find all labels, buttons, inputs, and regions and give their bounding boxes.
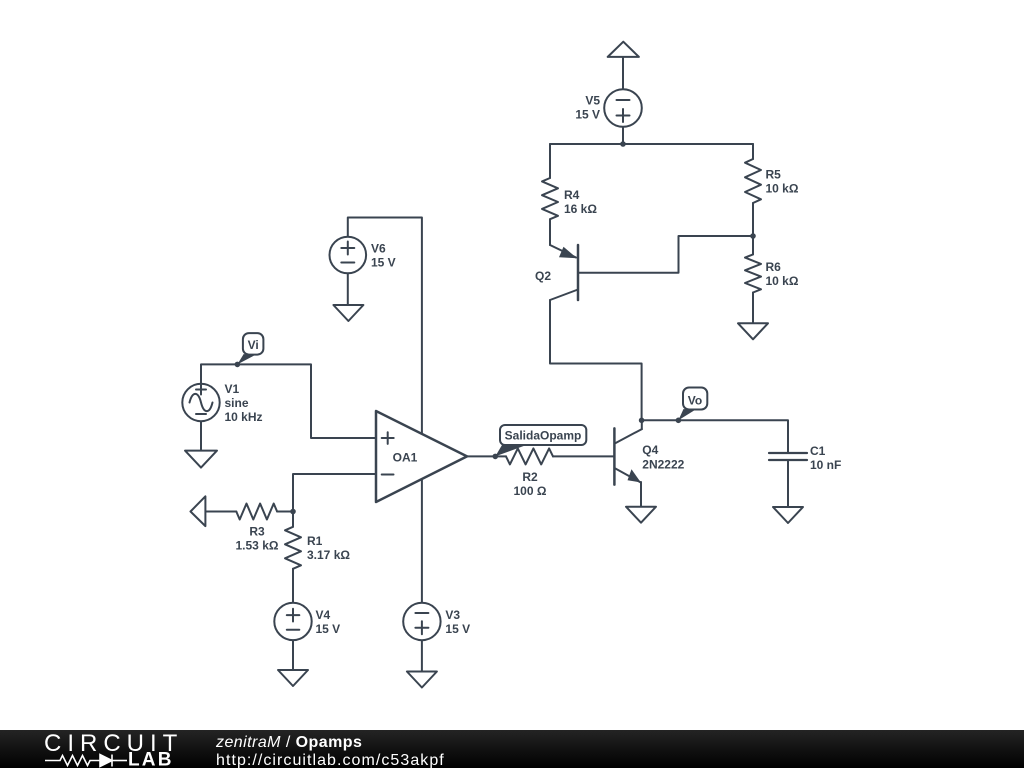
svg-text:2N2222: 2N2222 (642, 458, 684, 472)
node V5/rail junction (620, 141, 626, 147)
svg-text:R3: R3 (249, 525, 265, 539)
svg-text:V4: V4 (316, 608, 331, 622)
net flag SalidaOpamp (495, 425, 586, 456)
node SalidaOpamp junction (493, 454, 499, 460)
footer title text (216, 734, 445, 769)
ground (V6) (333, 305, 363, 321)
svg-text:R6: R6 (766, 260, 782, 274)
ground (R6) (738, 323, 768, 339)
svg-text:10 nF: 10 nF (810, 458, 841, 472)
wire op-amp V- pin to V3 (421, 479, 423, 603)
wire V5 top to power flag (622, 57, 624, 90)
svg-text:R1: R1 (307, 534, 323, 548)
wire op-amp output to R2 (467, 455, 506, 457)
wire V1 top to node Vi and op-amp + input (201, 364, 376, 438)
wire top rail V5 node (550, 143, 753, 145)
svg-text:16 kΩ: 16 kΩ (564, 202, 597, 216)
wire rail to R4 (549, 144, 551, 178)
svg-text:10 kΩ: 10 kΩ (766, 182, 799, 196)
wire Q2 base to node B (578, 236, 753, 273)
wire R2 to Q4 base (553, 455, 614, 457)
svg-text:Q2: Q2 (535, 269, 551, 283)
resistor R6 (745, 254, 761, 292)
svg-text:V3: V3 (445, 608, 460, 622)
wire V3 bottom to ground (421, 640, 423, 671)
voltage source V1 (sine) (182, 384, 219, 421)
resistor R5 (745, 159, 761, 203)
wire V4 bottom to ground (292, 640, 294, 670)
resistor R4 (542, 178, 558, 219)
svg-text:R5: R5 (766, 168, 782, 182)
wire V6 to op-amp V+ pin (348, 218, 422, 434)
resistor R1 (285, 527, 301, 569)
wire V5 bottom to rail (622, 126, 624, 144)
wire rail to R5 (752, 144, 754, 159)
voltage source V5 (604, 89, 642, 127)
resistor R2 (506, 448, 553, 464)
svg-text:R4: R4 (564, 188, 580, 202)
svg-text:Q4: Q4 (642, 443, 658, 457)
wire node arrow to R3 (205, 511, 236, 513)
svg-text:R2: R2 (522, 470, 538, 484)
power supply flag (V5 rail) (608, 42, 639, 57)
net flag Vo (678, 388, 707, 421)
capacitor C1 (769, 453, 807, 460)
wire V6 bottom to ground (347, 273, 349, 305)
svg-text:V5: V5 (585, 94, 600, 108)
voltage source V3 (403, 603, 440, 640)
resistor R3 (236, 504, 277, 520)
ground (Q4 emitter) (626, 507, 656, 523)
wire R4 to Q2 emitter (549, 219, 551, 245)
node Vi junction (235, 362, 241, 368)
svg-text:15 V: 15 V (316, 622, 341, 636)
svg-text:3.17 kΩ: 3.17 kΩ (307, 548, 350, 562)
svg-text:Vo: Vo (688, 393, 702, 407)
svg-text:Vi: Vi (248, 338, 259, 352)
svg-text:100 Ω: 100 Ω (514, 484, 547, 498)
ground (V3) (407, 672, 437, 688)
wire R3 to node C (277, 511, 293, 513)
ground (V4) (278, 670, 308, 686)
op-amp OA1 (376, 411, 467, 502)
ground (V1) (185, 451, 217, 468)
wire Q4 emitter to ground (640, 482, 642, 507)
node terminal arrow at R3 (191, 496, 206, 526)
node B junction (R5/R6/base) (750, 233, 756, 239)
svg-text:15 V: 15 V (371, 256, 396, 270)
svg-text:15 V: 15 V (575, 108, 600, 122)
svg-text:C1: C1 (810, 444, 826, 458)
svg-text:sine: sine (225, 396, 249, 410)
node Q4 collector junction (639, 418, 645, 424)
svg-text:10 kHz: 10 kHz (225, 410, 263, 424)
node C junction (R3/R1/inv) (290, 509, 296, 515)
net flag Vi (237, 333, 263, 364)
wire R1 to V4 (292, 569, 294, 604)
voltage source V4 (274, 603, 311, 640)
svg-text:10 kΩ: 10 kΩ (766, 274, 799, 288)
wire R6 to ground (752, 293, 754, 324)
transistor Q4 (614, 420, 641, 484)
svg-text:V6: V6 (371, 242, 386, 256)
CircuitLab logo (0, 730, 200, 768)
svg-text:1.53 kΩ: 1.53 kΩ (236, 539, 279, 553)
svg-text:OA1: OA1 (393, 451, 418, 465)
wire Q4 collector node to C1 (642, 420, 788, 453)
svg-text:SalidaOpamp: SalidaOpamp (505, 429, 582, 443)
wire Q2 collector down to Q4 collector node (550, 300, 642, 420)
svg-text:15 V: 15 V (445, 622, 470, 636)
wire V1 bottom to ground (200, 421, 202, 451)
ground (C1) (773, 507, 803, 523)
wire R5 to node B (752, 203, 754, 236)
voltage source V6 (330, 237, 367, 274)
transistor Q2 (550, 245, 578, 300)
wire node C to R1 (292, 512, 294, 527)
svg-text:V1: V1 (225, 382, 240, 396)
wire node B to R6 (752, 236, 754, 254)
svg-text:LAB: LAB (128, 750, 174, 769)
wire C1 bottom to ground (787, 460, 789, 507)
node Vo junction (676, 418, 682, 424)
wire op-amp - input to node C (293, 474, 376, 512)
